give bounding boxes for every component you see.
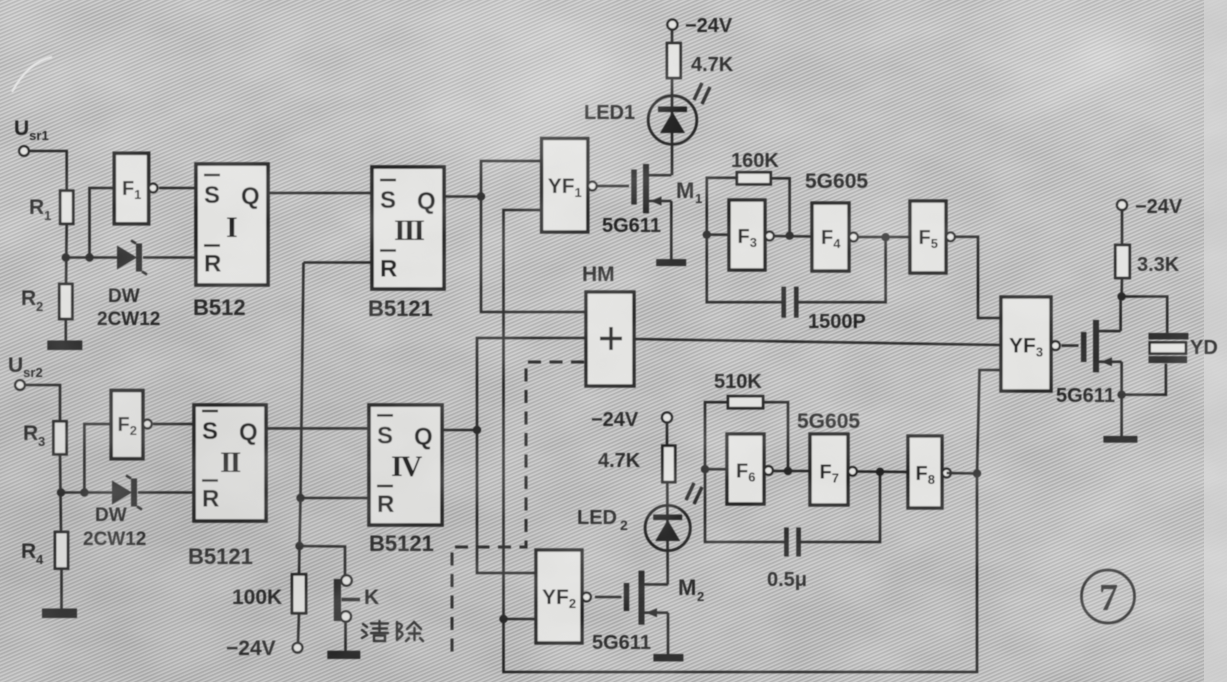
resistor 4.7K (LED1) [667, 43, 681, 78]
resistor R1 [60, 191, 73, 224]
wire [66, 256, 118, 259]
bus A vertical (III.Q to YF1/HM) [481, 161, 586, 312]
switch K (clear) [341, 575, 351, 585]
ground R2 [47, 341, 82, 351]
transistor M1 5G611 [631, 170, 637, 205]
ground R4 [42, 609, 77, 619]
flip-flop III (B5121) [372, 167, 444, 289]
wire [65, 319, 68, 341]
inverter F3 [729, 200, 765, 270]
wire M2 source with arrow [644, 611, 668, 614]
wire drain up to 3.3K junction [1119, 297, 1122, 332]
flip-flop IV (B5121) [369, 405, 442, 525]
node junction F7 out / cap [876, 468, 884, 476]
figure number 7 circled [1082, 570, 1135, 623]
LED2 [645, 505, 690, 550]
wire HM output to YF3 [634, 339, 1001, 345]
zener diode DW 2CW12 (channel 1) [117, 246, 137, 270]
wire YF3 out to gate [1062, 344, 1079, 347]
gate YF2 [536, 550, 582, 643]
wire III.Q output to bus [444, 195, 481, 198]
wire feedback up to YF3 input [977, 370, 1001, 474]
wire cap left [707, 235, 783, 303]
ground M1 [656, 259, 686, 266]
resistor R3 [54, 421, 67, 454]
wire III.R input [304, 261, 373, 264]
resistor R4 [55, 532, 68, 569]
node junction F2 tap [80, 488, 88, 496]
wire F8 out to junction [947, 472, 978, 475]
terminal Usr1 [19, 146, 29, 156]
wire to YD top [1122, 297, 1168, 333]
inverter F6 [727, 434, 764, 504]
node junction F4 out / cap [881, 233, 889, 241]
wire M1 source to ground [670, 201, 673, 260]
wire [143, 256, 196, 259]
node junction R3-R4 [57, 488, 65, 496]
wire [61, 491, 112, 494]
wire [60, 454, 61, 532]
wire F2 out to II [153, 423, 194, 426]
wire to 100K [298, 546, 301, 574]
wire 510K right [763, 402, 788, 471]
terminal Usr2 [15, 380, 25, 390]
wire I.Q to III.S [268, 192, 372, 195]
wire YF2 out to M2 gate [595, 596, 622, 599]
wire YF1 out to M1 gate [597, 185, 630, 188]
wire cap left [705, 469, 785, 542]
node junction F6 input [701, 465, 709, 473]
inverter F2 [111, 391, 143, 459]
wire II.Q to IV.S [266, 427, 369, 430]
resistor 510K [728, 396, 763, 408]
terminal -24V (output) [1117, 200, 1127, 210]
wire cap right [797, 237, 886, 302]
inverter F1 [114, 153, 148, 224]
wire source with arrow [1099, 360, 1122, 363]
bus C vertical (feedback to YF1/YF2) [504, 210, 978, 672]
inverter F5 [910, 201, 946, 273]
wire M1 drain [649, 174, 672, 177]
wire [90, 188, 115, 258]
inverter F7 [810, 434, 848, 505]
wire [60, 569, 63, 609]
wire to switch K [300, 546, 346, 576]
capacitor 0.5u [784, 528, 789, 557]
wire F3 input [707, 233, 729, 236]
wire source down to ground [1120, 362, 1123, 437]
wire F7 out to F8 [857, 470, 909, 473]
wire [84, 424, 111, 493]
wire IV.R input [301, 497, 370, 500]
node junction IV.Q on bus B [473, 426, 481, 434]
paper scratch highlight [12, 57, 52, 92]
resistor 4.7K (LED2) [662, 446, 675, 482]
HM plus symbol [600, 337, 622, 340]
wire to YD bottom [1122, 364, 1166, 395]
comparator HM [586, 292, 634, 386]
wire 160K feedback left [707, 178, 737, 235]
terminal -24V (LED2) [662, 413, 672, 423]
inverter F4 [812, 203, 849, 271]
wire F6 input [705, 468, 727, 471]
node junction 100K/K [295, 542, 303, 550]
wire [25, 385, 60, 421]
node junction F6 out / 510K [784, 467, 792, 475]
ground output stage [1103, 436, 1137, 443]
dashed clear line from HM to switch area [452, 362, 584, 657]
wire [65, 224, 68, 284]
node junction R1-R2 [62, 253, 70, 261]
node junction F3 input [703, 231, 711, 239]
wire [344, 622, 347, 652]
wire F4 out to F5 [858, 236, 911, 239]
wire IV.Q output to bus [442, 429, 477, 432]
wire M2 source to ground [667, 613, 670, 655]
resistor 3.3K [1115, 245, 1129, 278]
wire F1 out to I [159, 187, 196, 190]
wire 3.3K vertical [1121, 210, 1124, 245]
transistor 5G611 output [1081, 332, 1087, 362]
node junction IV.R [296, 494, 304, 502]
node junction 3.3K/YD [1117, 292, 1125, 300]
node junction F3 out / 160K [785, 232, 793, 240]
node junction YF2 lower input [499, 615, 507, 623]
wire [29, 151, 67, 191]
wire cap right [800, 472, 880, 542]
transistor M2 5G611 [624, 583, 630, 611]
zener diode DW 2CW12 (channel 2) [112, 481, 132, 505]
wire F3 out to F4 [774, 235, 813, 238]
piezo sounder YD [1149, 333, 1189, 340]
wire [138, 491, 194, 494]
wire drain [1099, 330, 1121, 333]
label qingchu (clear) hand-drawn hanzi [362, 621, 423, 641]
wire to YF2 lower input [504, 618, 537, 621]
wire [298, 613, 299, 643]
node junction F1 tap [85, 253, 93, 261]
inverter F8 [908, 436, 942, 508]
wire 160K right [771, 178, 790, 235]
LED2 light rays [686, 483, 694, 500]
wire 510K feedback left [705, 402, 728, 469]
node junction source/YD [1117, 391, 1125, 399]
page right edge light band [1204, 0, 1227, 682]
ground switch K [327, 651, 360, 659]
flip-flop II (B5121) [194, 405, 266, 521]
wire LED2 vertical [666, 423, 669, 446]
gate YF3 [1001, 297, 1051, 391]
wire F6 out to F7 [773, 470, 811, 473]
capacitor 1500P [781, 287, 786, 318]
node junction F8 output [973, 469, 981, 477]
bus B vertical (IV.Q to HM/YF2) [477, 338, 586, 573]
flip-flop I (B512) [196, 164, 268, 285]
ground M2 [653, 654, 683, 661]
LED1 light rays [694, 83, 702, 100]
terminal -24V (100K) [293, 643, 303, 653]
wire M2 drain [644, 583, 668, 586]
resistor 100K [292, 574, 306, 613]
wire M1 source with arrow [649, 200, 672, 203]
wire reset bus vertical [300, 263, 304, 547]
gate YF1 [542, 139, 588, 233]
terminal -24V (LED1) [667, 20, 677, 30]
node junction III.Q on bus A [477, 192, 485, 200]
resistor R2 [59, 284, 72, 319]
resistor 160K [737, 172, 771, 184]
wire LED1 vertical [671, 30, 674, 43]
wire F5 out to YF3 [955, 237, 1001, 318]
LED1 [648, 96, 697, 145]
